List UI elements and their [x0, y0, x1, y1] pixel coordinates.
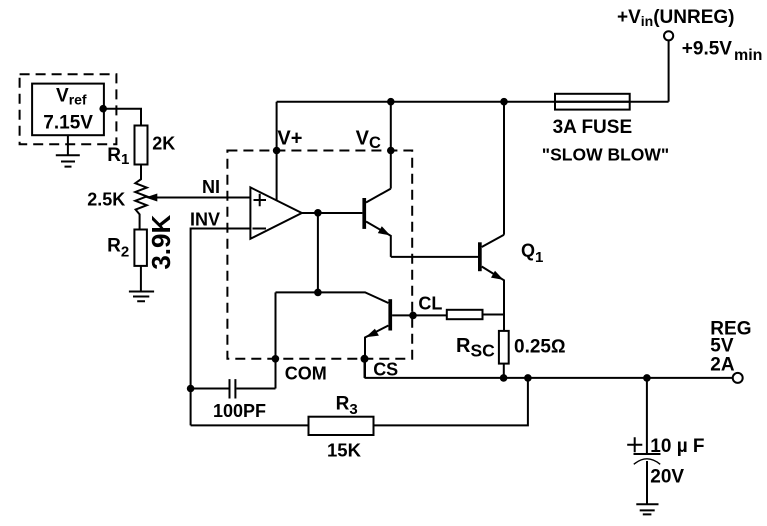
wire R3 to output node — [374, 378, 528, 426]
wire output down to lower node — [317, 213, 319, 293]
svg-text:3.9K: 3.9K — [146, 215, 176, 270]
svg-text:20V: 20V — [650, 466, 684, 487]
wire Tr2 base to CL — [392, 314, 447, 316]
svg-text:INV: INV — [190, 210, 220, 230]
node rail-VC dot — [387, 98, 395, 106]
capacitor C1 100PF — [191, 379, 276, 398]
potentiometer wiper arrow — [145, 194, 157, 202]
svg-text:"SLOW BLOW": "SLOW BLOW" — [542, 144, 669, 164]
node CS pin dot — [361, 355, 369, 363]
resistor R1 — [135, 126, 148, 165]
op-amp U1 — [250, 187, 301, 238]
svg-text:2K: 2K — [152, 134, 175, 154]
potentiometer 2.5K zigzag — [135, 165, 147, 230]
resistor R2 — [134, 230, 147, 266]
svg-text:15K: 15K — [327, 440, 362, 461]
top rail wire — [277, 101, 669, 103]
wire NI (wiper to op-amp + input) — [153, 197, 250, 199]
svg-text:100PF: 100PF — [213, 401, 266, 421]
wire Vref to R1 — [104, 109, 141, 126]
svg-text:+Vin(UNREG): +Vin(UNREG) — [617, 7, 735, 29]
capacitor + polarity sign — [627, 437, 642, 452]
resistor R3 — [309, 417, 374, 435]
Vref box — [32, 84, 104, 136]
resistor R-CL — [447, 310, 483, 319]
wire V+ drop — [276, 102, 278, 200]
terminal +Vin — [664, 31, 673, 40]
wire CS to output line — [364, 359, 366, 378]
Vref reference block dashed box — [20, 74, 117, 144]
op-amp - input sign — [253, 228, 267, 230]
capacitor C2 10uF electrolytic — [634, 378, 661, 504]
svg-text:CL: CL — [418, 293, 442, 313]
node COM pin dot — [272, 355, 280, 363]
wire INV (op-amp - input to feedback node) — [191, 229, 251, 426]
output line wire — [365, 377, 733, 379]
node VC pin dot — [387, 147, 395, 155]
node INV-cap junction dot — [187, 385, 195, 393]
node CL pin dot — [409, 312, 417, 320]
node RSC-output dot — [500, 374, 508, 382]
ground (under C2) — [636, 504, 658, 514]
node V+ pin dot — [273, 147, 281, 155]
svg-text:7.15V: 7.15V — [43, 112, 93, 133]
node rail-Q1 dot — [500, 98, 508, 106]
svg-text:CS: CS — [373, 359, 398, 379]
wire op-amp output — [302, 212, 363, 214]
wire vertical COM branch — [275, 292, 277, 388]
wire VC drop — [390, 102, 392, 189]
wire fuse to Vin terminal — [668, 40, 670, 101]
fuse F1 — [555, 94, 630, 110]
resistor RSC — [499, 331, 509, 364]
transistor Q1 — [478, 235, 504, 331]
svg-text:3A FUSE: 3A FUSE — [553, 117, 633, 138]
ground (under Vref box) — [56, 135, 80, 166]
wire Tr1 emitter to Q1 base — [391, 256, 478, 258]
ground (under R2) — [129, 266, 154, 301]
terminal REG output — [733, 373, 743, 383]
wire Q1 collector to rail — [503, 102, 505, 235]
IC internal dashed box — [227, 151, 412, 359]
op-amp + input sign — [254, 194, 267, 207]
svg-text:0.25Ω: 0.25Ω — [514, 336, 566, 357]
svg-text:V+: V+ — [277, 128, 302, 150]
wire RSC bottom to output line — [503, 364, 505, 378]
svg-text:COM: COM — [285, 364, 327, 384]
wire feedback bottom run to R3 — [191, 424, 309, 426]
svg-text:2A: 2A — [710, 354, 735, 375]
node Vref output dot — [99, 105, 107, 113]
transistor Tr1 (IC output transistor) — [362, 189, 390, 257]
node cap-output dot — [643, 374, 651, 382]
svg-text:5V: 5V — [710, 335, 734, 356]
node R3-output dot — [524, 374, 532, 382]
transistor Tr2 (current limit) — [276, 292, 393, 378]
svg-text:10 µ F: 10 µ F — [650, 436, 704, 457]
node op-amp output dot — [314, 209, 322, 217]
node junction dot — [314, 289, 322, 297]
svg-text:NI: NI — [202, 177, 220, 197]
wire R-CL to RSC top — [483, 314, 505, 316]
svg-text:2.5K: 2.5K — [87, 189, 125, 209]
